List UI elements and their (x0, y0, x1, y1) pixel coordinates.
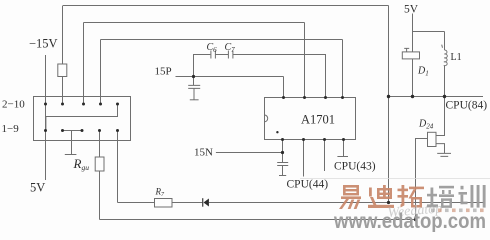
resistor R7 (155, 199, 173, 208)
svg-text:15N: 15N (194, 147, 213, 159)
connector bottom pin dots (44, 129, 47, 132)
capacitor (15P decoupling) with leads (188, 77, 200, 100)
wire A1701 pin stub with bar end (337, 140, 348, 157)
inductor L1 top tick (441, 45, 444, 48)
wire between C6 and C7 (215, 54, 228, 56)
resistor (unlabeled, in series from top line 1) (62, 6, 64, 65)
connector top pin dots (44, 103, 47, 106)
junction dot 15P node (192, 75, 195, 78)
resistor Rgu (95, 157, 104, 171)
wire bottom rail to D24 left lead (100, 219, 416, 221)
capacitor C6 (211, 51, 216, 59)
wire CPU(84) bus (389, 96, 484, 98)
wire C7 to A1701 pin (233, 55, 326, 98)
wire line 3 drop to A1701 pin (342, 40, 344, 98)
wire 5V net vertical (top line down to R7 rail) (388, 6, 390, 204)
junction dot bottom rail at D24 lead (414, 218, 417, 221)
wire top nest line 3 (101, 39, 343, 41)
svg-text:A1701: A1701 (301, 113, 335, 127)
svg-text:Rgu: Rgu (73, 156, 90, 172)
watermark (333, 185, 486, 233)
wire connector pin10 down to R7 rail (117, 131, 119, 203)
wire A1701 pin to 15N node (282, 140, 284, 153)
wire D24 right lead to ground (436, 144, 445, 154)
svg-text:C7: C7 (225, 42, 236, 54)
wire D1 to CPU(84) bus (412, 59, 414, 97)
op-amp/IC U1 A1701 body (265, 98, 356, 140)
wire top nest line 2 (84, 22, 305, 24)
wire connector pin to resistor Rgu (99, 131, 101, 158)
svg-text:2−10: 2−10 (2, 99, 25, 111)
junction dot 5V net at R7 rail (387, 201, 390, 204)
scan artifact line (300, 178, 490, 180)
junction dot bus at D1 (411, 95, 414, 98)
A1701 bottom pin dots (281, 138, 284, 141)
diode (unlabeled) on R7 rail (202, 198, 203, 207)
ground bar (15N cap) (279, 175, 286, 177)
svg-text:L1: L1 (451, 52, 462, 63)
wire line 2 drop to A1701 pin (304, 23, 306, 98)
junction dot bus at L1 (443, 95, 446, 98)
inductor L1 coil (444, 50, 448, 66)
svg-text:D24: D24 (418, 119, 434, 131)
wire line2 column to connector pin (83, 23, 85, 105)
D1 aux stub with bar (404, 48, 409, 52)
svg-text:CPU(44): CPU(44) (287, 179, 329, 191)
ground (D24) (437, 153, 451, 156)
wire line3 column to connector pin (100, 40, 102, 105)
wire D24 left lead down to bottom rail (416, 139, 428, 220)
svg-text:5V: 5V (404, 4, 419, 16)
wire diode to right edge (209, 202, 484, 204)
svg-text:D1: D1 (417, 66, 429, 78)
inductor L1 leads (444, 32, 446, 97)
wiper tap stub with bar end (65, 131, 77, 155)
wire top nest line 1 (63, 5, 389, 7)
A1701 notch (265, 115, 268, 122)
svg-text:5V: 5V (30, 181, 45, 195)
svg-text:C6: C6 (207, 42, 218, 54)
ground bar (15P cap) (190, 99, 199, 101)
wire A1701 pin to CPU(44) (303, 140, 305, 177)
svg-text:1−9: 1−9 (2, 123, 20, 135)
junction dot bus at 5V net (387, 95, 390, 98)
junction dot 15N node (281, 151, 284, 154)
capacitor C7 (228, 51, 233, 59)
wire bus down to D24 top lead (436, 97, 445, 136)
wire A1701 pin to CPU(43) (324, 140, 326, 172)
wire 15P drop to A1701 pin (283, 77, 285, 98)
wire 15P line (176, 76, 284, 78)
wire 15N line (216, 152, 283, 154)
wire R7 to diode (172, 202, 202, 204)
wire R7 rail left segment (118, 202, 155, 204)
internal jumper wire pin10 to pin1 (46, 104, 118, 131)
A1701 top pin dots (282, 96, 285, 99)
A1701 pin1 dot (276, 131, 278, 133)
svg-text:CPU(84): CPU(84) (446, 100, 488, 112)
internal wiper bar between pins (63, 130, 83, 132)
svg-text:CPU(43): CPU(43) (334, 161, 376, 173)
component D1 body (402, 52, 419, 59)
wire 5V feed from label (413, 14, 445, 52)
device D24 body (428, 132, 437, 146)
svg-text:R7: R7 (155, 187, 166, 199)
svg-text:−15V: −15V (29, 37, 58, 51)
svg-text:www.edatop.com: www.edatop.com (333, 210, 486, 232)
capacitor (15N decoupling) with leads (277, 153, 288, 176)
svg-text:15P: 15P (155, 66, 172, 78)
connector block (pins 1-9 / 2-10) (34, 97, 131, 141)
wire from 15P node up to capacitor branch (194, 55, 211, 77)
wire -15V / 5V column through connector (45, 55, 47, 180)
wire Rgu down to bottom rail (99, 171, 101, 220)
